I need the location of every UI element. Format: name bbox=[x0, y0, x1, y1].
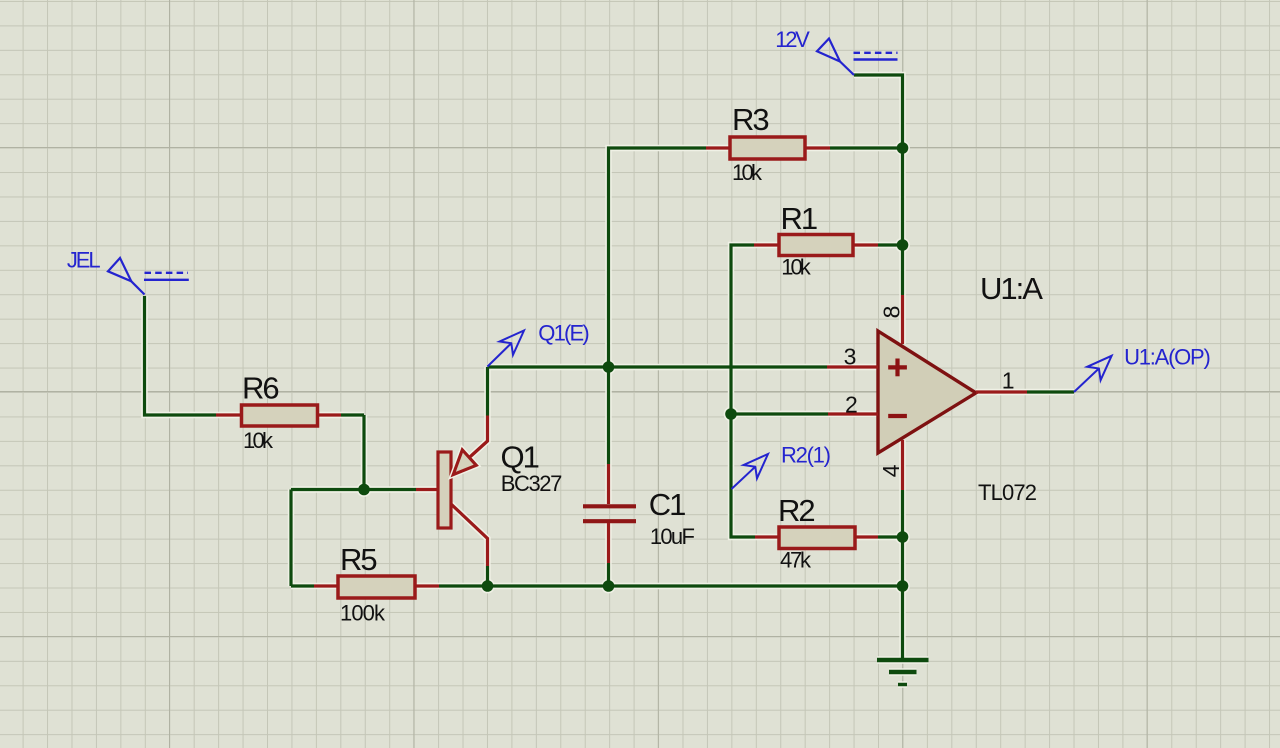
svg-text:100k: 100k bbox=[340, 601, 386, 626]
svg-text:R3: R3 bbox=[732, 102, 768, 137]
capacitor C1 plates bbox=[583, 506, 636, 521]
red pins draw bbox=[216, 148, 1027, 586]
node C1 bottom bbox=[603, 580, 615, 592]
svg-text:8: 8 bbox=[878, 306, 904, 319]
transistor Q1 emitter arrow bbox=[453, 441, 487, 475]
node pin3/C1 bbox=[603, 361, 615, 373]
node base/R6 bbox=[358, 484, 370, 496]
svg-text:R5: R5 bbox=[340, 542, 376, 577]
node label arrow U1:A(OP) bbox=[1074, 356, 1112, 392]
node 12V/R3 bbox=[897, 142, 909, 154]
op-amp plus sign bbox=[888, 359, 907, 377]
node label arrow R2(1) bbox=[732, 454, 769, 489]
resistor R2 bbox=[779, 527, 855, 549]
wire halos bbox=[145, 75, 1075, 660]
svg-text:2: 2 bbox=[845, 391, 858, 417]
transistor Q1 body bar bbox=[438, 452, 451, 528]
svg-text:10k: 10k bbox=[243, 428, 274, 453]
svg-text:12V: 12V bbox=[775, 27, 810, 52]
svg-text:U1:A: U1:A bbox=[980, 271, 1043, 306]
svg-text:47k: 47k bbox=[780, 548, 812, 573]
svg-text:10k: 10k bbox=[781, 255, 812, 280]
resistor R1 bbox=[779, 235, 853, 256]
svg-text:R1: R1 bbox=[781, 201, 817, 236]
svg-text:TL072: TL072 bbox=[978, 480, 1037, 505]
svg-text:Q1(E): Q1(E) bbox=[538, 321, 589, 346]
svg-text:3: 3 bbox=[844, 343, 857, 369]
pin numbers bbox=[844, 306, 1015, 478]
junction dot halos bbox=[357, 141, 910, 594]
svg-text:C1: C1 bbox=[649, 487, 685, 522]
node rail/ground bbox=[897, 580, 909, 592]
svg-text:R2(1): R2(1) bbox=[781, 443, 831, 468]
svg-text:U1:A(OP): U1:A(OP) bbox=[1124, 344, 1211, 369]
resistor R5 bbox=[338, 576, 415, 598]
node inverting input bbox=[725, 408, 737, 420]
node collector bottom bbox=[482, 580, 494, 592]
resistor R6 bbox=[242, 405, 318, 426]
svg-text:10uF: 10uF bbox=[650, 524, 695, 549]
node R2 right bbox=[897, 531, 909, 543]
svg-text:R6: R6 bbox=[242, 371, 278, 406]
node R1 right bbox=[897, 239, 909, 251]
svg-text:R2: R2 bbox=[778, 493, 814, 528]
svg-text:4: 4 bbox=[878, 464, 904, 477]
svg-text:1: 1 bbox=[1002, 368, 1015, 394]
op-amp U1 triangle bbox=[878, 331, 976, 453]
green wires draw bbox=[145, 75, 1075, 660]
svg-text:10k: 10k bbox=[732, 160, 763, 185]
svg-text:JEL: JEL bbox=[67, 247, 101, 272]
svg-text:Q1: Q1 bbox=[501, 439, 539, 474]
node label arrow Q1(E) bbox=[488, 331, 525, 367]
ground symbol halo bbox=[877, 660, 929, 685]
svg-text:BC327: BC327 bbox=[501, 471, 563, 496]
op-amp minus sign bbox=[888, 414, 907, 418]
resistor R3 bbox=[730, 137, 805, 159]
